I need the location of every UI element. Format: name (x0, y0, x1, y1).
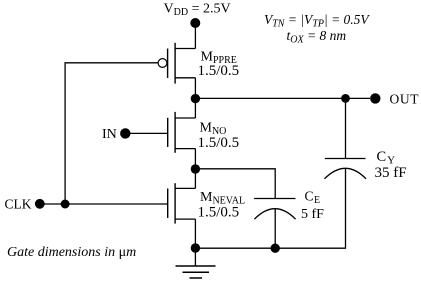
svg-text:1.5/0.5: 1.5/0.5 (198, 63, 240, 79)
label C_E (305, 188, 321, 206)
wire node B to C_E top (195, 169, 275, 199)
label VDD = 2.5V (164, 1, 231, 18)
wire M_NEVAL source to ground node (194, 219, 196, 248)
wire CLK rail to M_PPRE gate (65, 63, 158, 204)
value 35 fF (375, 165, 407, 181)
transistor M_PPRE (PMOS) (158, 43, 195, 84)
junction dot C_E bottom (271, 244, 280, 253)
wire C_E bottom to bottom rail (274, 209, 276, 248)
label M_NO (200, 121, 227, 138)
label C_Y (377, 149, 396, 167)
wire node A to M_NO drain (194, 99, 196, 118)
wire VDD dot to M_PPRE source (194, 23, 196, 49)
value 5 fF (301, 207, 324, 222)
capacitor C_E (254, 199, 296, 220)
label M_PPRE (201, 50, 237, 67)
junction dot OUT/C_Y (341, 94, 350, 103)
capacitor C_Y (325, 159, 367, 179)
wire CLK to M_NEVAL gate (40, 203, 168, 205)
node CLK terminal dot (35, 199, 45, 209)
svg-text:35 fF: 35 fF (375, 165, 407, 181)
junction dot CLK rail (61, 200, 70, 209)
ground (176, 266, 216, 278)
transistor M_NO (NMOS) (168, 112, 196, 153)
annotation tOX = 8 nm (287, 28, 347, 46)
node IN terminal dot (120, 128, 130, 138)
transistor M_NEVAL (NMOS) (168, 183, 196, 223)
wire ground stem (194, 248, 196, 266)
node OUT terminal dot (370, 93, 380, 103)
wire C_Y top to OUT line (345, 98, 347, 158)
svg-text:1.5/0.5: 1.5/0.5 (198, 204, 240, 220)
node C dot (ground node) (191, 243, 200, 252)
wire node B to M_NEVAL drain (194, 169, 196, 188)
label OUT (390, 92, 420, 107)
value 1.5/0.5 of M_NEVAL (198, 204, 240, 220)
node A dot (drain/OUT node) (191, 94, 200, 103)
wire M_NO source to node B (194, 149, 196, 169)
label CLK (5, 197, 32, 212)
wire node A to OUT (195, 97, 370, 99)
annotation VTN = |VTP| = 0.5V (264, 12, 370, 30)
label M_NEVAL (200, 190, 245, 207)
value 1.5/0.5 of M_PPRE (198, 63, 240, 79)
svg-text:Gate dimensions in μm: Gate dimensions in μm (7, 245, 136, 260)
wire bottom rail node C to C_Y bottom (195, 168, 345, 248)
annotation Gate dimensions in um (7, 245, 136, 260)
svg-text:VDD = 2.5V: VDD = 2.5V (164, 1, 231, 18)
svg-text:1.5/0.5: 1.5/0.5 (198, 135, 240, 151)
value 1.5/0.5 of M_NO (198, 135, 240, 151)
label IN (102, 127, 117, 142)
wire M_PPRE drain to node A (194, 78, 196, 99)
wire IN to M_NO gate (125, 132, 167, 134)
node B dot (between M_NO and M_NEVAL) (191, 164, 200, 173)
svg-text:CLK: CLK (5, 197, 32, 212)
svg-text:IN: IN (102, 127, 117, 142)
svg-text:5 fF: 5 fF (301, 207, 324, 222)
node VDD terminal dot (190, 18, 200, 28)
svg-text:OUT: OUT (390, 92, 420, 107)
